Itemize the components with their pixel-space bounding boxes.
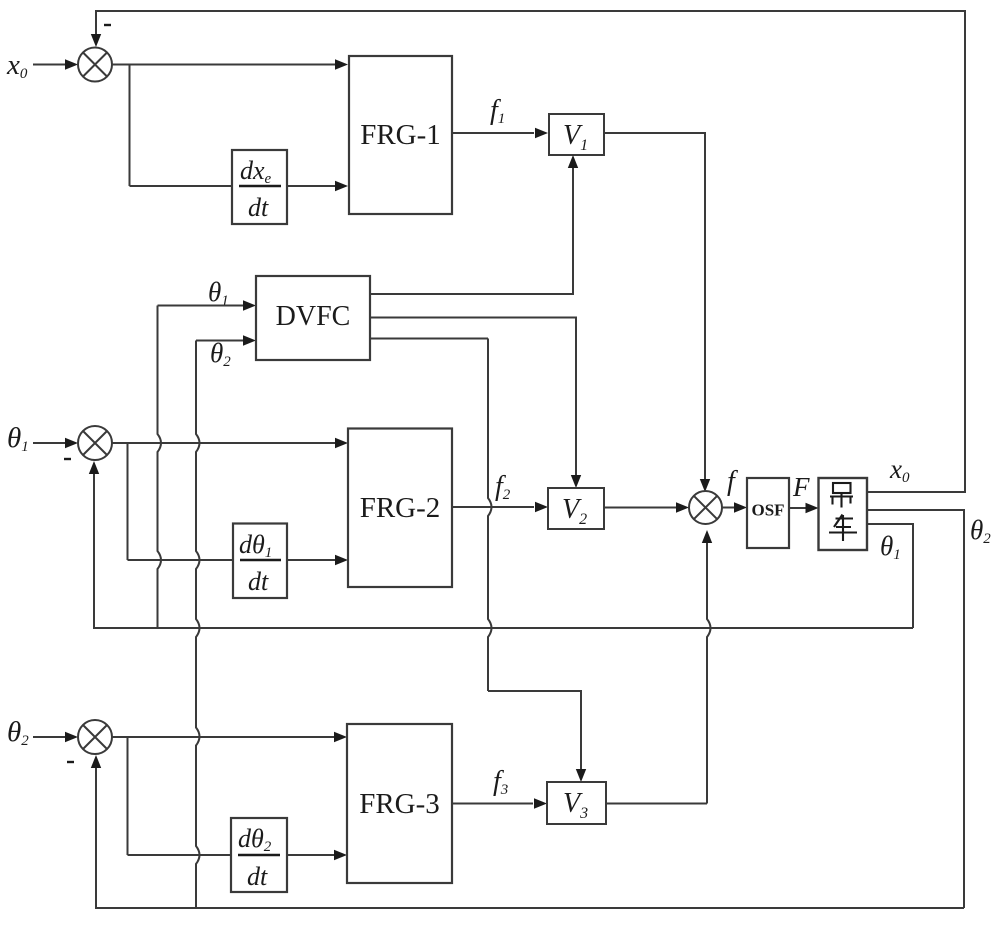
wire theta2 tap from theta2 feedback line up into DVFC (pin 2)	[196, 341, 200, 909]
wire x0 input arrow into summer S1	[33, 64, 66, 66]
svg-text:FRG-1: FRG-1	[360, 119, 441, 151]
svg-text:DVFC: DVFC	[276, 301, 351, 332]
block d(theta1)/dt (differentiator)	[233, 524, 287, 599]
wire DVFC output 1 right then up into V1 bottom	[370, 168, 573, 294]
wire d(theta1)/dt output to FRG-2 input (pin 2)	[287, 559, 335, 561]
minus sign at S1 top input	[104, 24, 111, 26]
wire branch down into dx_e/dt block	[130, 185, 233, 187]
block crane plant (diao che)	[819, 478, 868, 550]
wire f2: FRG-2 output to V2	[452, 506, 534, 508]
node branch junction on x0 error line	[129, 65, 131, 187]
fraction bar of d(theta1)/dt	[240, 559, 281, 561]
wire theta1 input arrow into summer S2	[33, 442, 66, 444]
wire DVFC output 3 right, down past f2 and theta1 lines, over to V3 top	[370, 338, 488, 340]
svg-text:dt: dt	[247, 862, 268, 891]
block V2 (gain)	[548, 488, 604, 529]
svg-text:FRG-3: FRG-3	[359, 788, 440, 820]
wire theta2 feedback: plant theta2 output right, down right side, along bottom and up into S3	[96, 510, 964, 908]
wire S1 output to FRG-1 input (pin 1)	[112, 64, 335, 66]
wire branch down into d(theta1)/dt block	[128, 559, 234, 561]
block FRG-2 (fuzzy rule group 2)	[348, 429, 452, 588]
wire S2 output to FRG-2 input (pin 1)	[112, 442, 335, 444]
wire V2 output into mixer left	[604, 507, 676, 509]
wire S3 output to FRG-3 input (pin 1)	[112, 736, 334, 738]
wire x0 feedback loop: plant x0 output up over top to S1	[96, 11, 965, 492]
block OSF (output scaling factor)	[747, 478, 789, 548]
node branch junction on theta1 error line	[127, 443, 129, 560]
svg-text:dt: dt	[248, 567, 269, 596]
svg-text:F: F	[792, 472, 810, 502]
wire V3 output right then up into mixer bottom	[606, 803, 707, 805]
minus sign at S2 bottom input	[64, 458, 71, 460]
wire theta2 input arrow into summer S3	[33, 736, 66, 738]
wire branch down into d(theta2)/dt block	[128, 854, 232, 856]
wire f1: FRG-1 output to V1	[452, 132, 534, 134]
wire f3: FRG-3 output to V3	[452, 803, 533, 805]
wire d(theta2)/dt output to FRG-3 input (pin 2)	[287, 854, 334, 856]
block FRG-1 (fuzzy rule group 1)	[349, 56, 452, 214]
svg-text:FRG-2: FRG-2	[360, 492, 441, 524]
svg-text:OSF: OSF	[751, 501, 784, 520]
block V3 (gain)	[547, 782, 606, 824]
summing junction S1 (x0 comparator)	[78, 48, 112, 82]
fraction bar of dx_e/dt	[239, 185, 281, 187]
node branch junction on theta2 error line	[127, 737, 129, 855]
label crane character diao	[830, 483, 853, 508]
summing junction S4 (force mixer)	[689, 491, 722, 524]
wire DVFC output 2 right then down into V2 top	[370, 318, 576, 476]
label crane character che	[829, 515, 857, 542]
block DVFC (damping variable fuzzy controller)	[256, 276, 370, 360]
block dx_e/dt (differentiator)	[232, 150, 287, 224]
fraction bar of d(theta2)/dt	[238, 854, 280, 856]
svg-text:dt: dt	[248, 193, 269, 222]
wire mixer output into OSF	[722, 507, 735, 509]
minus sign at S3 bottom input	[67, 761, 74, 763]
block d(theta2)/dt (differentiator)	[231, 818, 287, 892]
block FRG-3 (fuzzy rule group 3)	[347, 724, 452, 883]
wire theta1 tap from theta1 feedback line up into DVFC (pin 1)	[158, 306, 162, 629]
wire V1 output right then down into mixer top	[604, 133, 705, 479]
block V1 (gain)	[549, 114, 604, 155]
summing junction S2 (theta1 comparator)	[78, 426, 112, 460]
wire theta1 feedback: plant theta1 output right, down, left and up into S2	[94, 474, 913, 628]
wire OSF output F into crane plant	[789, 507, 806, 509]
wire dx_e/dt output to FRG-1 input (pin 2)	[287, 185, 335, 187]
summing junction S3 (theta2 comparator)	[78, 720, 112, 754]
